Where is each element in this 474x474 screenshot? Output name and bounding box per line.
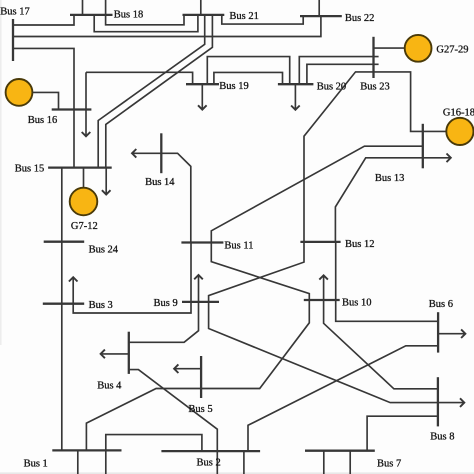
wire 1-2 (106, 435, 202, 474)
feeder into Bus 18 right + wire 18-21 circuit 1 (106, 0, 184, 25)
generator circle near Bus 16 (6, 79, 33, 106)
svg-text:Bus 4: Bus 4 (97, 381, 122, 392)
bus bar Bus 17 (12, 19, 14, 61)
generator stub Bus 2 right (243, 451, 245, 474)
svg-text:Bus 16: Bus 16 (28, 115, 57, 126)
Bus 5 load arrow shaft (174, 368, 201, 370)
Bus 10 load arrow head (319, 275, 328, 279)
svg-text:Bus 17: Bus 17 (0, 6, 29, 17)
wire 2-4 (129, 370, 218, 474)
Bus 19 load arrow shaft (201, 84, 203, 109)
bus bar Bus 21 (183, 14, 225, 16)
feeder into Bus 22 (318, 0, 320, 16)
generator circle G7-12 (70, 188, 98, 216)
wire 10-12 / 6-10 riser (336, 242, 438, 321)
bus bar Bus 11 (181, 241, 223, 243)
wire 11-13 (211, 146, 422, 242)
bus bar Bus 7 (305, 450, 375, 452)
svg-text:Bus 7: Bus 7 (377, 459, 401, 470)
generator stub Bus 1 left (77, 450, 79, 474)
scan edge shading bottom (0, 472, 474, 474)
generator circle G27-29 (405, 35, 432, 62)
Bus 19 load arrow head (198, 105, 207, 109)
Bus 20 load arrow head (291, 106, 300, 110)
bus bar Bus 4 (128, 332, 130, 374)
wire 15-21 circuit 1 (98, 15, 205, 168)
feeder into Bus 18 left (82, 0, 84, 15)
scan edge shading left (0, 0, 2, 345)
svg-text:Bus 5: Bus 5 (188, 404, 212, 415)
bus bar Bus 22 (300, 15, 342, 17)
svg-text:Bus 14: Bus 14 (145, 177, 175, 188)
svg-text:Bus 19: Bus 19 (219, 81, 248, 92)
Bus 3 load arrow shaft + wire 3-9 (73, 243, 191, 314)
bus bar Bus 8 (437, 377, 439, 426)
wire Bus 23 to G27-29 (374, 47, 406, 49)
generator stub Bus 7 right (349, 451, 351, 474)
svg-text:Bus 1: Bus 1 (24, 459, 48, 470)
wire 19-20 circuit 2 (214, 72, 283, 84)
svg-text:Bus 6: Bus 6 (429, 299, 453, 310)
bus bar Bus 2 (161, 450, 260, 452)
Bus 6 load arrow head (461, 329, 465, 338)
wire 18-21 circuit 2 (94, 15, 198, 32)
Bus 16 load arrow head (82, 132, 91, 136)
svg-text:G27-29: G27-29 (436, 45, 468, 56)
Bus 14 load arrow head (132, 149, 136, 158)
wire 8-9 + Bus 8 load arrow shaft (209, 302, 465, 403)
wire 21-22 (222, 15, 303, 24)
svg-text:Bus 3: Bus 3 (89, 300, 113, 311)
svg-text:Bus 18: Bus 18 (114, 10, 143, 21)
svg-text:G7-12: G7-12 (71, 221, 98, 232)
Bus 6 load arrow shaft (438, 333, 465, 335)
wire 19-20 circuit 1 (207, 57, 289, 85)
bus bar Bus 23 (372, 37, 374, 78)
svg-text:Bus 9: Bus 9 (154, 298, 178, 309)
svg-text:Bus 22: Bus 22 (345, 13, 374, 24)
wire 17-18 (13, 15, 74, 25)
svg-text:Bus 12: Bus 12 (345, 239, 374, 250)
wire generator to Bus 16 (33, 92, 59, 109)
wire 17-16 (13, 48, 74, 167)
wire Bus 15 to G7-12 (83, 168, 85, 188)
bus bar Bus 14 (160, 133, 162, 173)
bus bar Bus 24 (44, 241, 84, 243)
wire 12-13 + Bus 13 load arrow shaft (335, 158, 450, 242)
Bus 10 load arrow shaft + wire 8-10 (324, 275, 438, 389)
bus bar Bus 1 (52, 449, 121, 451)
wire 5-10 / 1-5 corridor (86, 300, 309, 450)
bus bar Bus 19 (186, 83, 219, 85)
svg-text:G16-18: G16-18 (443, 108, 474, 119)
Bus 4 load arrow shaft (101, 353, 129, 355)
wire 17-22 (13, 16, 321, 36)
svg-text:Bus 20: Bus 20 (317, 82, 346, 93)
svg-text:Bus 10: Bus 10 (342, 298, 371, 309)
wire 11-14 + Bus 14 load arrow shaft (132, 153, 191, 242)
Bus 13 load arrow head (447, 154, 451, 163)
svg-text:Bus 13: Bus 13 (375, 173, 404, 184)
bus bar Bus 12 (300, 241, 340, 243)
svg-text:Bus 23: Bus 23 (360, 82, 389, 93)
bus bar Bus 3 (43, 303, 84, 305)
svg-text:Bus 15: Bus 15 (15, 163, 44, 174)
wire 15-21 circuit 2 + Bus 15 load arrow shaft (106, 15, 213, 195)
feeder into Bus 21 (200, 0, 202, 15)
bus bar Bus 5 (200, 356, 202, 398)
bus bar Bus 16 (52, 108, 92, 110)
bus bar Bus 10 (304, 299, 340, 301)
wire 9-12 (209, 242, 304, 302)
svg-text:Bus 11: Bus 11 (224, 241, 253, 252)
generator circle G16-18 (446, 118, 473, 145)
wire 2-6 (248, 346, 438, 451)
bus bar Bus 9 (182, 301, 219, 303)
Bus 15 load arrow head (102, 190, 111, 194)
wire 10-11 (211, 243, 309, 301)
svg-text:Bus 21: Bus 21 (229, 11, 258, 22)
Bus 9 load arrow shaft + wire 4-9 (129, 275, 199, 342)
bus bar Bus 20 (278, 83, 314, 85)
bus bar Bus 6 (437, 312, 439, 352)
Bus 3 load arrow head (69, 277, 78, 281)
wire 12-23 / 13-23 corridor (304, 72, 446, 242)
Bus 9 load arrow head (194, 275, 203, 279)
Bus 16 load arrow shaft (85, 72, 87, 136)
bus bar Bus 18 (70, 14, 113, 16)
Bus 20 load arrow shaft (294, 84, 296, 110)
svg-text:Bus 2: Bus 2 (197, 458, 221, 469)
svg-text:Bus 8: Bus 8 (430, 432, 454, 443)
wire 20-23 circuit 1 (299, 57, 378, 85)
wire 7-8 (367, 416, 438, 451)
bus bar Bus 13 (422, 124, 424, 169)
bus bar Bus 15 (48, 166, 112, 168)
Bus 8 load arrow head (460, 398, 464, 407)
wire 15-24 / 24-3 / 3-1 vertical (61, 168, 63, 451)
Bus 5 load arrow head (174, 364, 178, 373)
Bus 4 load arrow head (101, 350, 105, 359)
svg-text:Bus 24: Bus 24 (89, 245, 119, 256)
generator stub Bus 7 left (323, 451, 325, 474)
wire 16-19 (86, 72, 193, 84)
wire 20-23 circuit 2 (307, 64, 379, 84)
